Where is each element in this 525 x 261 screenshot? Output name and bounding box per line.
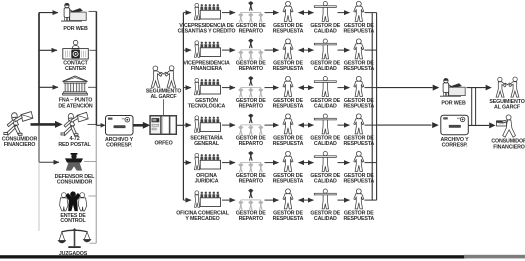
wire arrow calidad to respuesta2 gestion tecnologica [338,87,350,89]
icon gestor de respuesta 1 row gestion tecnologica [283,76,293,96]
svg-text:RESPUESTA: RESPUESTA [343,141,374,147]
icon archivo y corresp left [106,116,134,136]
icon seguimiento al garcf right [496,77,519,97]
wire arrow oficina comercial to gestor de reparto [222,199,235,201]
svg-text:FINANCIERA: FINANCIERA [191,66,222,72]
wire collector into archivo arrow [96,124,100,126]
svg-text:CALIDAD: CALIDAD [314,104,337,110]
svg-text:RESPUESTA: RESPUESTA [273,104,304,110]
wire respuesta2 to collectors gestion tecnologica [365,87,377,89]
wire arrow trunk to vicepresidencia cesantias [183,12,191,14]
wire por web to seguimiento right [467,87,486,89]
wire double arrow respuesta1 calidad oficina juridica [299,162,314,164]
svg-text:REPARTO: REPARTO [239,29,263,35]
svg-text:TECNOLÓGICA: TECNOLÓGICA [188,102,226,110]
icon gestor de respuesta 2 row gestion tecnologica [354,76,364,96]
wire juzgados stub [90,242,97,244]
wire arrow trunk to oficina comercial [183,199,191,201]
wire arrow trunk to oficina juridica [183,162,191,164]
wire double arrow respuesta1 calidad vicepresidencia financiera [299,49,314,51]
svg-text:REPARTO: REPARTO [239,104,263,110]
icon orfeo [150,116,177,135]
svg-text:FNA – PUNTO: FNA – PUNTO [59,97,92,103]
wire respuesta2 to collectors oficina juridica [365,162,377,164]
wire collector vertical upper [95,11,97,125]
wire respuesta2 to collectors vicepresidencia financiera [365,49,377,51]
wire arrow trunk to secretaria general [183,124,191,126]
svg-text:REPARTO: REPARTO [239,141,263,147]
wire arrow trunk to vicepresidencia financiera [183,49,191,51]
wire double arrow respuesta1 calidad vicepresidencia cesantias [299,12,314,14]
icon gestor de respuesta 2 row vicepresidencia financiera [354,39,364,59]
wire collectors to por web right [377,87,433,89]
svg-text:CONTROL: CONTROL [60,218,86,224]
wire faint trunk bottom [38,162,40,231]
icon 4-72 red postal [61,112,88,135]
wire thick arrow consumidor to red postal [31,123,56,126]
icon gestor de reparto row vicepresidencia financiera [238,39,263,60]
svg-text:Y MERCADEO: Y MERCADEO [185,216,219,222]
wire arrow gestion tecnologica to gestor de reparto [222,87,235,89]
icon seguimiento al garcf middle [151,66,175,88]
icon contact center [63,40,89,59]
wire respuesta2 to collectors secretaria general [365,124,377,126]
svg-text:AL GARCF: AL GARCF [150,94,177,100]
icon gestor de calidad row vicepresidencia cesantias [314,2,336,22]
svg-text:CENTER: CENTER [65,66,86,72]
svg-text:RESPUESTA: RESPUESTA [273,141,304,147]
svg-text:CORRESP.: CORRESP. [442,143,468,149]
wire collectors to archivo right [377,124,432,126]
icon gestor de respuesta 2 row oficina comercial [354,189,364,209]
icon department gestion tecnologica [195,78,221,95]
wire arrow calidad to respuesta2 oficina juridica [338,162,350,164]
icon gestor de respuesta 1 row vicepresidencia financiera [283,39,293,59]
svg-text:RESPUESTA: RESPUESTA [273,179,304,185]
bottom black band [0,255,466,258]
svg-text:CESANTÍAS Y CRÉDITO: CESANTÍAS Y CRÉDITO [178,27,236,35]
wire arrow reparto to respuesta1 oficina comercial [265,199,279,201]
svg-text:POR WEB: POR WEB [441,101,466,107]
svg-text:REPARTO: REPARTO [239,66,263,72]
svg-text:JURÍDICA: JURÍDICA [195,177,219,185]
svg-text:REPARTO: REPARTO [239,216,263,222]
svg-text:DE ATENCIÓN: DE ATENCIÓN [58,102,93,110]
icon archivo y corresp right [441,115,469,135]
icon gestor de respuesta 1 row oficina comercial [283,189,293,209]
wire arrow into defensor [39,161,59,163]
wire arrow secretaria general to gestor de reparto [222,124,235,126]
bottom gray band right segment [464,255,525,259]
svg-text:RED POSTAL: RED POSTAL [58,142,91,148]
svg-text:ORFEO: ORFEO [154,140,172,146]
wire archivo right to consumidor right [468,124,489,126]
wire red postal to collector [88,123,97,125]
wire arrow reparto to respuesta1 secretaria general [265,124,279,126]
wire arrow vicepresidencia financiera to gestor de reparto [222,49,235,51]
svg-text:RESPUESTA: RESPUESTA [273,29,304,35]
wire arrow calidad to respuesta2 secretaria general [338,124,350,126]
wire right inner vertical 2 [475,88,477,126]
icon gestor de respuesta 2 row secretaria general [354,114,364,134]
wire right collector vertical 2 [376,13,378,201]
wire right inner vertical 1 [471,88,473,126]
wire seguimiento to orfeo [163,99,165,115]
wire branch to CONTACT CENTER [39,49,57,51]
svg-text:RESPUESTA: RESPUESTA [343,29,374,35]
svg-text:RESPUESTA: RESPUESTA [343,179,374,185]
wire collector vertical lower [95,125,97,243]
svg-text:RESPUESTA: RESPUESTA [343,66,374,72]
icon gestor de calidad row oficina comercial [314,189,336,209]
icon FNA bank [63,76,88,95]
svg-text:CALIDAD: CALIDAD [314,216,337,222]
icon gestor de calidad row oficina juridica [314,152,336,172]
icon consumidor financiero left [4,112,33,136]
wire arrow calidad to respuesta2 oficina comercial [338,199,350,201]
wire arrow reparto to respuesta1 vicepresidencia cesantias [265,12,279,14]
wire branch to FNA [39,86,58,88]
wire POR WEB to collector [89,10,97,12]
wire respuesta2 to collectors oficina comercial [365,199,377,201]
icon gestor de calidad row secretaria general [314,114,336,134]
svg-text:RESPUESTA: RESPUESTA [343,216,374,222]
icon gestor de reparto row gestion tecnologica [238,76,263,97]
wire double arrow respuesta1 calidad gestion tecnologica [299,87,314,89]
svg-text:CALIDAD: CALIDAD [314,141,337,147]
icon gestor de reparto row secretaria general [238,114,263,135]
icon gestor de calidad row vicepresidencia financiera [314,39,336,59]
icon gestor de respuesta 1 row vicepresidencia cesantias [283,1,293,21]
icon juzgados scales [58,228,91,248]
svg-text:CORRESP.: CORRESP. [106,143,132,149]
svg-text:CALIDAD: CALIDAD [314,66,337,72]
icon gestor de respuesta 1 row secretaria general [283,114,293,134]
wire arrow reparto to respuesta1 gestion tecnologica [265,87,279,89]
svg-text:POR WEB: POR WEB [63,26,88,32]
svg-text:CALIDAD: CALIDAD [314,179,337,185]
icon entes de control [60,191,87,211]
icon department secretaria general [195,116,221,133]
svg-text:RESPUESTA: RESPUESTA [273,216,304,222]
svg-text:AL GARCF: AL GARCF [494,105,521,111]
icon gestor de reparto row oficina comercial [238,189,263,210]
wire arrow vicepresidencia cesantias to gestor de reparto [222,12,235,14]
wire FNA to collector [88,86,96,88]
icon gestor de reparto row vicepresidencia cesantias [238,1,263,22]
wire arrow oficina juridica to gestor de reparto [222,162,235,164]
wire branch trunk vertical [182,13,184,201]
wire arrow reparto to respuesta1 vicepresidencia financiera [265,49,279,51]
wire orfeo to branch trunk [177,124,184,126]
icon gestor de respuesta 2 row oficina juridica [354,151,364,171]
wire thick arrow archivo to orfeo [133,124,143,127]
svg-text:RESPUESTA: RESPUESTA [273,66,304,72]
icon department oficina comercial [195,191,221,208]
icon defensor del consumidor [65,153,83,171]
wire left trunk vertical [38,13,40,125]
wire respuesta2 to collectors vicepresidencia cesantias [365,12,377,14]
icon gestor de reparto row oficina juridica [238,151,263,172]
icon por web left [61,3,86,21]
wire trunk lower to defensor [38,124,40,162]
wire arrow reparto to respuesta1 oficina juridica [265,162,279,164]
icon department vicepresidencia financiera [195,41,221,58]
svg-text:REPARTO: REPARTO [239,179,263,185]
icon gestor de calidad row gestion tecnologica [314,77,336,97]
wire double arrow respuesta1 calidad oficina comercial [299,199,314,201]
svg-text:GENERAL: GENERAL [194,141,220,147]
wire branch to POR WEB [39,12,58,14]
wire arrow calidad to respuesta2 vicepresidencia cesantias [338,12,350,14]
svg-text:FINANCIERO: FINANCIERO [493,144,524,150]
wire defensor stub [84,160,96,162]
wire arrow trunk to gestion tecnologica [183,87,191,89]
wire double arrow respuesta1 calidad secretaria general [299,124,314,126]
wire arrow calidad to respuesta2 vicepresidencia financiera [338,49,350,51]
icon gestor de respuesta 1 row oficina juridica [283,151,293,171]
wire CONTACT to collector [90,49,97,51]
wire entes stub [89,195,97,197]
svg-text:FINANCIERO: FINANCIERO [4,142,35,148]
svg-text:RESPUESTA: RESPUESTA [343,104,374,110]
icon department oficina juridica [195,153,221,170]
icon department vicepresidencia cesantias [195,3,221,20]
icon consumidor financiero right [497,115,516,137]
icon gestor de respuesta 2 row vicepresidencia cesantias [354,1,364,21]
svg-text:CONSUMIDOR: CONSUMIDOR [57,179,93,185]
svg-text:CALIDAD: CALIDAD [314,29,337,35]
icon por web right [440,78,465,96]
wire right collector vertical 1 [371,13,373,201]
